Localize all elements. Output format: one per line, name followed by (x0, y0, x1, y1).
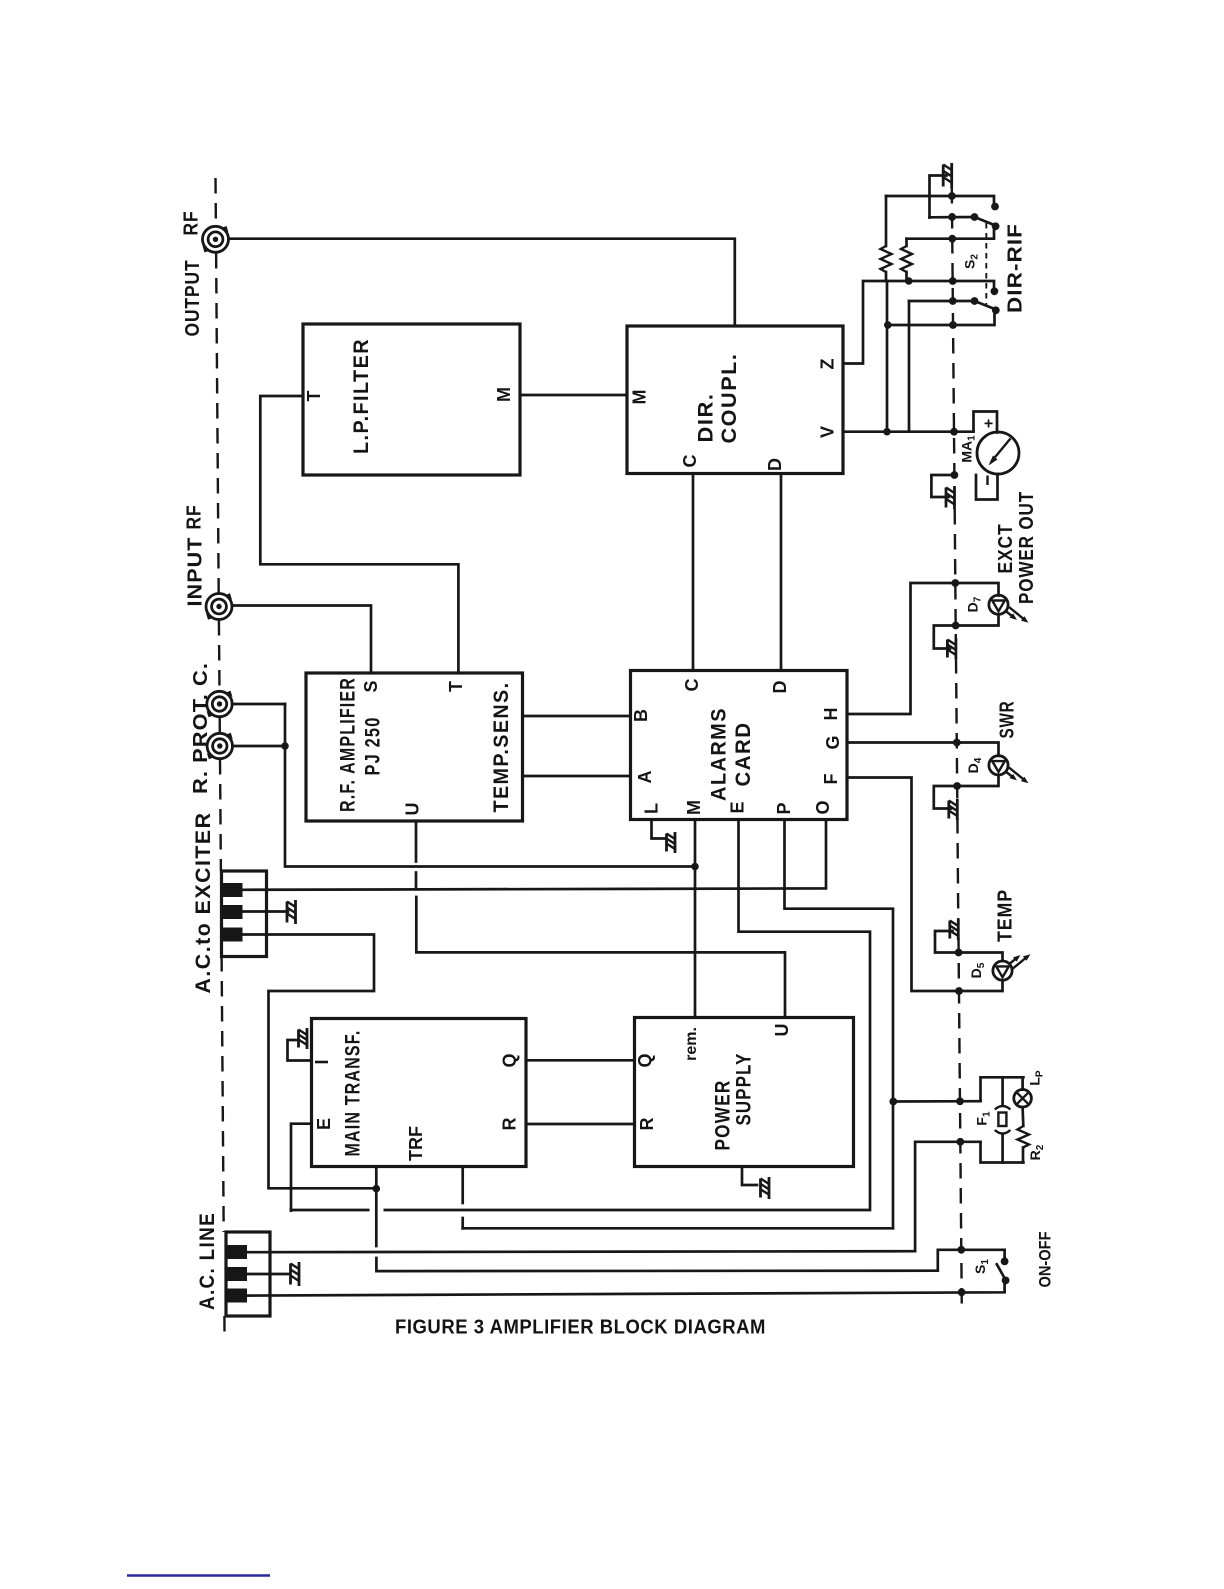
wire S2 upper pole pivot (930, 216, 975, 219)
resistor R top-left (881, 196, 892, 281)
block DIR.COUPL. (627, 326, 843, 474)
svg-text:M: M (684, 800, 704, 815)
svg-text:A: A (635, 771, 655, 784)
label INPUT RF (184, 505, 207, 607)
wire input rf to rf amplifier S (232, 606, 371, 674)
svg-text:Z: Z (818, 359, 838, 370)
ground power supply (742, 1167, 769, 1200)
svg-text:H: H (821, 708, 841, 721)
svg-text:L: L (642, 803, 662, 814)
svg-text:B: B (631, 709, 651, 722)
meter MA1 (959, 412, 1020, 500)
ground lamp D7 (947, 638, 956, 659)
resistor R top-right (901, 239, 912, 281)
svg-text:L.P.FILTER: L.P.FILTER (350, 338, 373, 454)
svg-text:M: M (494, 387, 514, 402)
wire alarms E to main transf E (with hop over stub1) (291, 820, 870, 1210)
blue margin mark (127, 1574, 270, 1577)
svg-text:D: D (765, 458, 785, 471)
ground top right panel (930, 163, 952, 218)
svg-text:TEMP.SENS.: TEMP.SENS. (490, 682, 513, 813)
label OUTPUT RF (181, 211, 205, 337)
svg-text:INPUT: INPUT (185, 537, 207, 607)
svg-text:V: V (818, 426, 838, 438)
wire alarms M to power supply rem. (694, 820, 697, 1018)
svg-text:MAIN TRANSF.: MAIN TRANSF. (342, 1030, 365, 1157)
svg-text:COUPL.: COUPL. (718, 353, 741, 444)
svg-text:I: I (312, 1059, 332, 1064)
svg-text:P: P (774, 802, 794, 814)
wire dir.coupl C to alarms C (692, 474, 695, 671)
wire alarms P tap to fuse block (893, 1100, 981, 1103)
fuse block F1 with lamp LP and resistor R2 (974, 1070, 1047, 1162)
connector P2 A.C. LINE plug (225, 1232, 271, 1316)
svg-text:O: O (813, 800, 833, 814)
svg-text:DIR-RIF: DIR-RIF (1005, 223, 1027, 313)
resistor R2 (1021, 1107, 1024, 1126)
svg-text:SWR: SWR (997, 701, 1019, 739)
svg-text:PJ 250: PJ 250 (362, 717, 385, 776)
switch S2 mechanical link (985, 223, 987, 306)
svg-text:S: S (361, 680, 381, 692)
wire r.prot.c. upper to bus (232, 703, 285, 706)
wire output rf to dir.coupl top (229, 239, 735, 326)
svg-text:A.C.to EXCITER: A.C.to EXCITER (192, 812, 215, 994)
switch S1 (972, 1250, 1009, 1285)
wire lamp D7 to ground (934, 614, 999, 648)
svg-text:rem.: rem. (683, 1027, 700, 1061)
svg-text:TRF: TRF (406, 1126, 426, 1161)
svg-text:R: R (500, 1118, 520, 1131)
ground alarms L pin (652, 820, 676, 853)
wire a.c. line prong2 to ground (243, 1273, 289, 1276)
svg-text:SUPPLY: SUPPLY (733, 1053, 756, 1126)
switch S2 lower arm (975, 301, 997, 310)
svg-text:G: G (823, 735, 843, 749)
wire rf amplifier temp.sens to alarms B (523, 715, 631, 718)
svg-text:FIGURE 3 AMPLIFIER BLOCK DIAGR: FIGURE 3 AMPLIFIER BLOCK DIAGRAM (395, 1316, 766, 1339)
wire S2 upper pole top contact (886, 196, 994, 203)
wire P return to main transf TRF stub2 (with hop over E wire) (463, 1227, 893, 1230)
wire main transf TRF stub1 to S1 loop (hop over a.c. line wire) (375, 1167, 378, 1247)
wire exciter prong1 to alarms O (243, 820, 827, 890)
ground main transf I pin (288, 1028, 312, 1061)
wire main transf Q to power supply Q (526, 1059, 635, 1062)
svg-text:U: U (403, 803, 423, 816)
wire S2 lower pole lower contact (888, 313, 995, 325)
lamp D4 (965, 756, 1028, 784)
wire dir.coupl D to alarms D (780, 474, 783, 671)
connector P1 A.C. to EXCITER plug (220, 871, 267, 957)
svg-text:ON-OFF: ON-OFF (1036, 1232, 1055, 1288)
svg-text:OUTPUT: OUTPUT (182, 260, 204, 337)
wire a.c. line prong1 to fuse return (243, 1251, 916, 1252)
wire alarms G to lamp D4 (847, 743, 999, 756)
wire alarms P down the right (785, 820, 894, 1229)
wire rf amplifier temp.sens to alarms A (523, 775, 631, 778)
svg-text:Q: Q (635, 1053, 655, 1067)
node Y325 T junction (884, 321, 892, 329)
node alarms M junction (691, 863, 699, 871)
wire lamp D5 to ground (935, 931, 1003, 961)
nodes on right panel dashed line (948, 192, 965, 1296)
svg-text:ALARMS: ALARMS (708, 707, 731, 801)
wire lp filter T to rf amplifier T (260, 396, 458, 673)
lamp D7 (965, 595, 1029, 623)
svg-text:F: F (821, 774, 841, 785)
svg-text:Q: Q (500, 1053, 520, 1067)
lamp D5 (968, 954, 1030, 980)
svg-text:R. PROT. C.: R. PROT. C. (190, 662, 212, 794)
connector J4 R.PROT.C. lower (207, 733, 233, 760)
ground exciter prong2 (287, 900, 296, 924)
svg-text:TEMP: TEMP (995, 889, 1017, 942)
block POWER SUPPLY (635, 1018, 854, 1167)
svg-text:T: T (304, 391, 324, 402)
svg-text:CARD: CARD (732, 722, 755, 787)
wire dir.coupl V to meter (843, 430, 974, 433)
svg-text:D: D (770, 681, 790, 694)
svg-text:DIR.: DIR. (695, 393, 718, 443)
node stub1 top junction (373, 1185, 381, 1193)
svg-text:POWER OUT: POWER OUT (1016, 491, 1038, 604)
connector J1 OUTPUT RF (203, 226, 229, 253)
left interface dashed line (216, 178, 225, 1332)
ground meter minus via bus (931, 475, 954, 509)
svg-text:R: R (637, 1118, 657, 1131)
svg-text:C: C (682, 679, 702, 692)
svg-text:U: U (772, 1024, 792, 1037)
wire alarms H to lamp D7 (847, 583, 999, 714)
svg-text:EXCT: EXCT (995, 524, 1017, 574)
wire alarms F to lamp D5 (847, 778, 1003, 992)
svg-text:POWER: POWER (712, 1080, 735, 1151)
connector J2 INPUT RF (206, 593, 232, 620)
S2 contact nodes (991, 203, 999, 211)
ground lamp D5 (950, 919, 959, 940)
wire S2 pole links down to V wire (886, 281, 889, 432)
block ALARMS CARD (631, 671, 848, 820)
wire S2 upper pole lower contact (907, 229, 995, 239)
lamp LP (1021, 1077, 1024, 1089)
block L.P.FILTER (303, 324, 520, 475)
wire r.prot.c. lower to bus (233, 745, 286, 748)
wire lamp D4 to ground (934, 775, 999, 809)
svg-text:R.F. AMPLIFIER: R.F. AMPLIFIER (337, 677, 360, 812)
node V wire x R junction (883, 428, 891, 436)
node r.prot.c. junction (281, 742, 289, 750)
block MAIN TRANSF. TRF (312, 1019, 527, 1167)
wire a.c. line prong3 to S1 bottom (243, 1281, 1005, 1296)
svg-text:C: C (680, 455, 700, 468)
block RF AMPLIFIER PJ 250 / TEMP.SENS. (306, 673, 523, 821)
wire fuse block bottom return to a.c. line (915, 1142, 980, 1251)
ground a.c. line prong2 (291, 1262, 300, 1286)
fuse F1 (1001, 1077, 1004, 1105)
wire r.prot.c. bus to alarms M junction (285, 704, 695, 867)
right panel dashed line (952, 188, 962, 1308)
svg-text:RF: RF (184, 505, 206, 530)
wire main transf R to power supply R (526, 1123, 635, 1126)
svg-text:E: E (728, 801, 748, 813)
wire dir.coupl Z to S2 lower pole top contact (843, 281, 994, 364)
switch S2 upper arm (975, 217, 996, 226)
wire rf amplifier U to power supply U (with crossing hops) (415, 821, 418, 862)
wire exciter prong2 to ground (243, 910, 289, 913)
svg-text:M: M (630, 390, 650, 405)
svg-text:T: T (446, 681, 466, 692)
svg-text:+: + (984, 416, 993, 433)
wire exciter prong3 to main transf loop (243, 935, 377, 1189)
wire lp filter M to dir.coupl M (520, 394, 627, 397)
connector J3 R.PROT.C. upper (207, 691, 233, 718)
svg-text:A.C. LINE: A.C. LINE (196, 1212, 219, 1310)
wire S2 lower pole pivot (909, 300, 975, 303)
node R2 bottom junction (905, 277, 913, 285)
svg-text:RF: RF (181, 211, 203, 236)
svg-text:E: E (314, 1118, 334, 1130)
ground lamp D4 (949, 799, 958, 820)
node fuse tap junction (889, 1098, 897, 1106)
